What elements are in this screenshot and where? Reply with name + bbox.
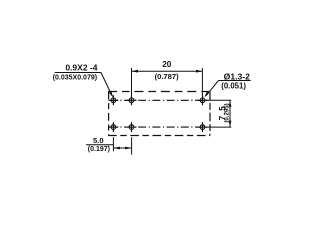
svg-text:(0.295): (0.295) xyxy=(224,103,231,122)
svg-text:(0.051): (0.051) xyxy=(221,81,246,90)
svg-text:0.9X2 -4: 0.9X2 -4 xyxy=(65,63,97,73)
svg-text:Ø1.3-2: Ø1.3-2 xyxy=(224,71,250,81)
svg-text:(0.197): (0.197) xyxy=(88,146,110,153)
svg-text:20: 20 xyxy=(162,60,172,69)
svg-text:(0.035X0.079): (0.035X0.079) xyxy=(53,75,97,82)
svg-text:5.0: 5.0 xyxy=(93,136,104,145)
svg-text:(0.787): (0.787) xyxy=(155,72,180,81)
